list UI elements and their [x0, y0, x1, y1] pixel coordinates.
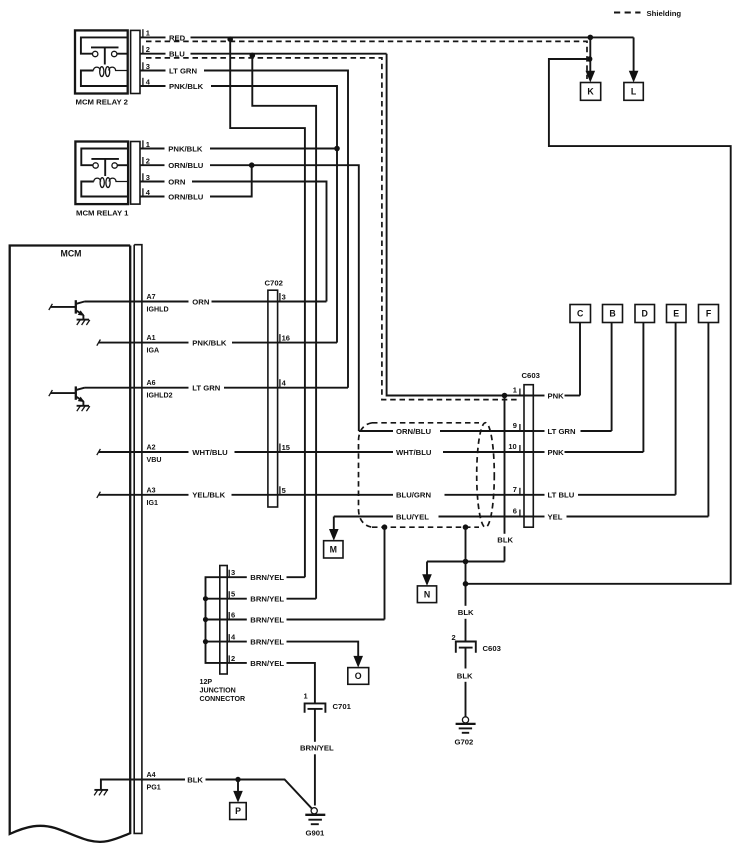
svg-text:ORN/BLU: ORN/BLU	[168, 161, 203, 170]
12P pin 2	[229, 654, 235, 663]
junction dot shield to BRN/YEL drain	[382, 524, 388, 530]
relay1 pin 4	[143, 188, 151, 197]
12P pin 4	[229, 633, 236, 642]
MCM connector bar	[134, 245, 142, 834]
svg-text:BLU/GRN: BLU/GRN	[396, 491, 431, 500]
wire A1 PNK/BLK right segment to C702 pin16	[232, 342, 337, 344]
wire BLU branch to junction connector pin5 run	[252, 55, 316, 598]
svg-text:A6: A6	[147, 379, 156, 387]
wire BRN/YEL pin6 to shield drain	[227, 619, 384, 621]
svg-text:LT GRN: LT GRN	[192, 384, 220, 393]
connector C603 inline pin 2	[456, 642, 476, 653]
junction dot PNK/BLK at relay1 pin1	[334, 146, 340, 152]
wire shield drain BRN/YEL vertical to junction connector pin6	[384, 527, 386, 619]
svg-text:L: L	[631, 87, 637, 97]
MCM pin A1 IGA labels	[147, 334, 160, 355]
MCM pin A4 PG1 labels	[147, 771, 161, 792]
svg-text:M: M	[330, 545, 337, 555]
terminal box B	[603, 305, 623, 323]
connector 12P junction body	[220, 566, 227, 675]
wire LT GRN from C603 pin9 to B	[533, 323, 611, 432]
svg-text:IG1: IG1	[147, 499, 158, 507]
svg-text:1: 1	[146, 29, 150, 38]
wire LT BLU from C603 pin7 to E	[533, 323, 675, 495]
svg-text:2: 2	[146, 45, 150, 54]
svg-text:6: 6	[513, 507, 517, 516]
relay2 pin 4	[143, 77, 151, 86]
svg-text:ORN: ORN	[168, 177, 186, 186]
wire ORN/BLU bundle row to C603 pin9	[359, 430, 534, 432]
svg-text:3: 3	[146, 173, 150, 182]
svg-text:F: F	[706, 309, 712, 319]
wire LT GRN relay2 pin3 vertical to A6 row	[204, 71, 348, 388]
svg-text:BRN/YEL: BRN/YEL	[250, 615, 284, 624]
svg-text:C603: C603	[522, 371, 540, 380]
MCM pin A6 IGHLD2 labels	[147, 379, 173, 400]
svg-text:A7: A7	[147, 293, 156, 301]
svg-text:PNK: PNK	[548, 391, 565, 400]
terminal box D	[635, 305, 655, 323]
svg-text:G702: G702	[455, 738, 474, 747]
C603 pin 10	[508, 442, 520, 452]
wire A3 YEL/BLK segment to bundle	[232, 494, 394, 496]
12P pin 6	[229, 611, 235, 620]
C702 pin 15	[280, 443, 290, 452]
arrow into O	[353, 656, 363, 668]
ground chassis symbol at A4 inside MCM	[94, 780, 185, 796]
svg-text:MCM RELAY 1: MCM RELAY 1	[76, 208, 129, 217]
svg-text:JUNCTION: JUNCTION	[200, 687, 236, 695]
relay MCM RELAY 2 body	[75, 30, 140, 93]
wire ORN/BLU label relay1 pin2	[140, 161, 204, 170]
terminal box O	[348, 668, 369, 685]
connector C701 inline pin 1	[305, 703, 326, 712]
arrow into L	[629, 71, 639, 83]
wire PNK from C603 pin10 to D	[533, 323, 643, 453]
svg-text:O: O	[355, 671, 362, 681]
svg-text:2: 2	[452, 633, 456, 642]
12P pin 5	[229, 590, 235, 599]
terminal box E	[667, 305, 687, 323]
MCM pin A3 IG1 labels	[147, 486, 158, 507]
relay2 pin 1	[143, 29, 150, 38]
terminal box P	[230, 803, 247, 820]
wire PNK/BLK label relay1 pin1	[140, 144, 203, 153]
arrow into K	[586, 71, 596, 83]
ground G702	[456, 717, 476, 733]
terminal box M	[324, 541, 343, 558]
svg-text:BLK: BLK	[187, 775, 203, 784]
wire BLU/YEL drop to M	[333, 517, 335, 530]
connector C702 body	[268, 290, 278, 507]
wire BLU/YEL bundle row to C603 pin6	[334, 516, 534, 518]
svg-text:YEL/BLK: YEL/BLK	[192, 491, 225, 500]
wire BLU main run	[191, 53, 387, 55]
wire BLU/GRN bundle segment to C603 pin7	[445, 494, 534, 496]
wire BLK horizontal to N branch	[427, 561, 505, 563]
wire PNK/BLK relay2 pin4 vertical to A1 row	[211, 86, 337, 343]
wire BLU shielded drop to C603 pin1	[387, 54, 534, 396]
terminal box K	[581, 83, 601, 101]
junction dot shield to BLK drain	[463, 524, 469, 530]
svg-text:BRN/YEL: BRN/YEL	[250, 595, 284, 604]
wire A2 stub with tick	[97, 449, 189, 455]
wire BRN/YEL pin5	[227, 598, 316, 600]
wire WHT/BLU bundle segment to C603 pin10	[443, 451, 533, 453]
connector 12P label	[200, 678, 246, 703]
svg-text:BLK: BLK	[457, 672, 473, 681]
wire RED label	[140, 33, 186, 42]
MCM control module box with torn bottom edge	[10, 246, 131, 842]
wire BRN/YEL pin2 to C701	[227, 663, 315, 703]
wire BLK into inline connector	[465, 619, 467, 642]
junction dot BLK drain at C603 pin1	[502, 393, 508, 399]
C702 pin 5	[280, 486, 286, 495]
MCM pin A7 IGHLD labels	[147, 293, 169, 314]
svg-text:PNK: PNK	[548, 448, 565, 457]
connector C603 body	[524, 385, 533, 528]
svg-text:G901: G901	[306, 829, 326, 838]
wire ORN label relay1 pin3	[140, 177, 186, 186]
svg-text:12P: 12P	[200, 678, 213, 686]
wire relay1 pin1 PNK/BLK run	[210, 148, 337, 150]
junction dot A4/P	[235, 777, 240, 782]
relay2 pin 3	[143, 62, 150, 71]
wire A7 ORN left segment	[85, 301, 189, 303]
wire RED branch to junction connector pin3 run	[230, 39, 305, 577]
svg-text:10: 10	[508, 442, 516, 451]
svg-text:ORN: ORN	[192, 297, 210, 306]
svg-text:5: 5	[282, 486, 286, 495]
wire RED drop to L	[633, 37, 635, 71]
legend: shielding dashed sample	[614, 12, 641, 14]
ground G901	[305, 808, 325, 825]
svg-text:C702: C702	[265, 279, 283, 288]
svg-text:MCM RELAY 2: MCM RELAY 2	[76, 97, 129, 106]
junction dot RED shield branch	[227, 36, 233, 42]
shielded cable capsule end ellipse	[477, 423, 495, 528]
wire A3 stub with tick	[97, 492, 189, 498]
svg-text:WHT/BLU: WHT/BLU	[396, 448, 432, 457]
C702 pin 4	[280, 379, 287, 388]
wire RED drop to K	[589, 37, 591, 71]
svg-text:D: D	[642, 309, 648, 319]
svg-text:A3: A3	[147, 486, 156, 494]
svg-text:9: 9	[513, 421, 517, 430]
svg-text:7: 7	[513, 485, 517, 494]
terminal box L	[624, 83, 643, 101]
arrow into N	[422, 574, 432, 586]
wire BLK to G702	[465, 682, 467, 717]
relay1 pin 1	[143, 140, 150, 149]
svg-text:1: 1	[146, 140, 150, 149]
svg-text:IGHLD2: IGHLD2	[147, 392, 173, 400]
wire PNK from C603 pin1 to C	[533, 323, 580, 396]
svg-text:MCM: MCM	[61, 249, 82, 259]
svg-text:B: B	[609, 309, 615, 319]
terminal box C	[570, 305, 591, 323]
svg-text:C701: C701	[333, 702, 352, 711]
wire YEL from C603 pin6 to F	[533, 323, 708, 517]
relay1 pin 3	[143, 173, 150, 182]
junction dot ground wire from top right	[463, 581, 469, 587]
arrow into M	[329, 529, 339, 541]
wire RED main run to K/L	[191, 36, 634, 38]
wire drop to N	[426, 562, 428, 575]
wire BLK main ground vertical upper	[465, 527, 467, 606]
wire A7 ORN right segment to C702 pin3	[212, 301, 327, 303]
wire shield drain from K drop to ground path	[466, 59, 731, 584]
junction dot BLK at main ground wire	[463, 559, 469, 565]
svg-text:1: 1	[513, 386, 517, 395]
svg-text:2: 2	[231, 654, 235, 663]
svg-text:PG1: PG1	[147, 784, 161, 792]
svg-text:N: N	[424, 589, 430, 599]
svg-text:A4: A4	[147, 771, 156, 779]
svg-text:16: 16	[282, 334, 290, 343]
svg-text:LT GRN: LT GRN	[169, 66, 197, 75]
svg-text:PNK/BLK: PNK/BLK	[192, 339, 227, 348]
svg-text:3: 3	[146, 62, 150, 71]
svg-text:K: K	[587, 87, 594, 97]
arrow into P	[233, 791, 243, 803]
relay1 pin 2	[143, 157, 150, 166]
C603 pin 9	[513, 421, 520, 431]
svg-text:ORN/BLU: ORN/BLU	[396, 427, 431, 436]
svg-text:1: 1	[304, 692, 308, 701]
svg-text:PNK/BLK: PNK/BLK	[168, 144, 203, 153]
svg-text:BRN/YEL: BRN/YEL	[250, 638, 284, 647]
C702 pin 3	[280, 293, 286, 302]
relay MCM RELAY 1 body	[75, 142, 140, 205]
svg-text:BRN/YEL: BRN/YEL	[300, 744, 334, 753]
wire BLK drain from C603 pin1 junction down	[504, 396, 506, 562]
svg-text:A2: A2	[147, 444, 156, 452]
svg-text:E: E	[673, 309, 679, 319]
wire ORN/BLU label relay1 pin4	[140, 192, 204, 201]
svg-text:P: P	[235, 806, 241, 816]
wire PNK/BLK label	[140, 82, 204, 91]
svg-text:WHT/BLU: WHT/BLU	[192, 448, 228, 457]
svg-text:LT GRN: LT GRN	[548, 427, 576, 436]
junction dot shield drain at K drop	[587, 56, 593, 62]
svg-text:BLK: BLK	[497, 536, 513, 545]
svg-text:2: 2	[146, 157, 150, 166]
svg-text:C603: C603	[483, 644, 501, 653]
wire A6 LT GRN right segment to C702 pin4	[224, 387, 348, 389]
transistor Q2 driver IGHLD2	[49, 386, 90, 411]
junction dot BLU shield branch	[250, 53, 256, 59]
C603 pin 7	[513, 485, 520, 495]
svg-text:Shielding: Shielding	[647, 9, 682, 18]
svg-text:PNK/BLK: PNK/BLK	[169, 82, 204, 91]
transistor Q1 driver IGHLD	[49, 300, 90, 325]
C603 pin 1	[513, 386, 520, 396]
wire A6 LT GRN left segment	[85, 387, 189, 389]
junction dot 12P bus pin5	[203, 596, 208, 601]
svg-text:C: C	[577, 309, 584, 319]
svg-text:BLK: BLK	[458, 608, 474, 617]
wire A2 WHT/BLU segment to bundle	[235, 451, 394, 453]
svg-text:15: 15	[282, 443, 290, 452]
shielded cable capsule around bundle	[359, 423, 480, 527]
svg-text:CONNECTOR: CONNECTOR	[200, 695, 246, 703]
wire BRN/YEL pin4 to O	[227, 642, 358, 657]
svg-text:3: 3	[231, 568, 235, 577]
wire drop to P	[237, 780, 239, 792]
wire BLK below inline connector	[465, 648, 467, 669]
wire BRN/YEL below C701	[314, 709, 316, 742]
svg-text:5: 5	[231, 590, 235, 599]
svg-text:IGA: IGA	[147, 347, 160, 355]
svg-text:VBU: VBU	[147, 456, 162, 464]
svg-text:A1: A1	[147, 334, 156, 342]
wire A4 BLK to P junction and G901	[206, 780, 312, 809]
wire relay1 pin3 ORN vertical to A7 row	[192, 182, 327, 302]
wire A1 stub with tick	[97, 340, 189, 346]
relay2 pin 2	[143, 45, 150, 54]
svg-text:ORN/BLU: ORN/BLU	[168, 192, 203, 201]
svg-text:LT BLU: LT BLU	[548, 491, 575, 500]
wire BLU label	[140, 50, 185, 59]
svg-text:3: 3	[282, 293, 286, 302]
svg-text:BRN/YEL: BRN/YEL	[250, 659, 284, 668]
junction dot RED at K drop	[588, 35, 594, 41]
junction dot 12P bus pin4	[203, 639, 208, 644]
wire BRN/YEL pin3	[227, 576, 305, 578]
C702 pin 16	[280, 334, 290, 343]
svg-text:6: 6	[231, 611, 235, 620]
12P bus bar jumper	[206, 577, 228, 663]
svg-text:IGHLD: IGHLD	[147, 306, 169, 314]
wire relay1 pin2 ORN/BLU run and vertical to bundle	[210, 165, 359, 431]
svg-text:BRN/YEL: BRN/YEL	[250, 573, 284, 582]
svg-text:YEL: YEL	[548, 512, 563, 521]
wire relay1 pin2 to pin4 jumper	[210, 165, 252, 196]
terminal box F	[699, 305, 719, 323]
12P pin 3	[229, 568, 235, 577]
junction dot ORN/BLU relay1 pin2	[249, 162, 255, 168]
shielding dashed line under RED wire	[146, 41, 587, 79]
svg-text:BLU/YEL: BLU/YEL	[396, 512, 429, 521]
wire LT GRN label	[140, 66, 197, 75]
terminal box N	[417, 586, 436, 603]
C603 pin 6	[513, 507, 520, 517]
MCM pin A2 VBU labels	[147, 444, 162, 465]
shielding dashed line under BLU wire turning down to cable capsule	[146, 58, 520, 400]
wire BRN/YEL to G901	[314, 754, 316, 805]
junction dot 12P bus pin6	[203, 617, 208, 622]
